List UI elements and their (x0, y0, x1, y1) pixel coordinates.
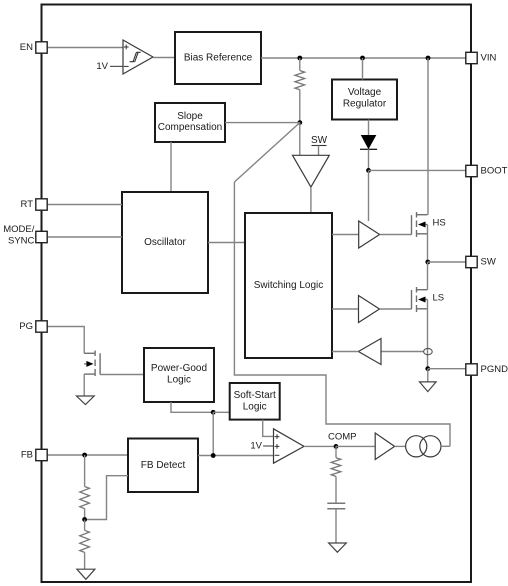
wire FB pin to FB Detect (48, 454, 129, 456)
node COMP junction (334, 444, 339, 449)
wire HS driver to HS gate (380, 234, 412, 236)
wire SW node to SW pin (428, 261, 466, 263)
svg-text:Slope: Slope (177, 111, 203, 122)
op-amp LS gate driver (359, 296, 380, 323)
pin PG (19, 321, 47, 332)
wire PG MOSFET gate to Power-Good Logic (100, 374, 144, 376)
pin EN (20, 42, 47, 53)
svg-text:PGND: PGND (481, 364, 508, 375)
wire PG MOSFET source to ground (83, 374, 85, 396)
svg-text:Logic: Logic (243, 402, 267, 413)
wire U1 output to Bias Reference (153, 57, 175, 59)
node SW junction (425, 260, 430, 265)
wire Soft-Start Logic to error amp + input (263, 420, 274, 437)
diode bootstrap (360, 136, 377, 150)
value label 1V (error amp reference) (250, 441, 262, 452)
node FB divider mid junction (82, 517, 87, 522)
wire Switching Logic to LS driver (332, 308, 359, 310)
wire BOOT node down to HS driver supply (368, 170, 370, 221)
wire VIN rail to Voltage Regulator (362, 58, 364, 80)
wire feedback loop: down, right, down, right, down to current source (234, 182, 450, 446)
svg-text:Bias Reference: Bias Reference (184, 53, 253, 64)
pin MODE/SYNC (3, 224, 47, 247)
svg-text:Power-Good: Power-Good (151, 363, 207, 374)
svg-text:VIN: VIN (481, 53, 497, 64)
wire SW node to LS drain (427, 262, 429, 290)
svg-text:SW: SW (311, 135, 328, 146)
wire zero-cross sense to buffer (381, 351, 424, 353)
op-amp error amplifier (274, 429, 305, 463)
wire PGND node to PGND pin (428, 368, 466, 370)
svg-text:RT: RT (21, 199, 34, 210)
block Soft-Start Logic (230, 383, 280, 420)
wire Voltage Regulator to diode (368, 120, 370, 136)
wire RT pin to Oscillator (48, 204, 123, 206)
wire BOOT node to BOOT pin (369, 169, 467, 171)
node FB line junction (211, 453, 216, 458)
wire current source output loop (441, 445, 450, 447)
svg-text:COMP: COMP (328, 432, 357, 443)
wire Slope Compensation output to summing node (225, 122, 300, 124)
block Slope Compensation (155, 103, 225, 142)
wire sense comparator output to Switching Logic (310, 187, 312, 213)
block Oscillator (122, 192, 208, 293)
svg-text:SYNC: SYNC (8, 235, 35, 246)
label COMP (328, 432, 357, 443)
wire junction down to FB line (212, 412, 214, 455)
current source (two circles) (406, 436, 441, 457)
node FB junction (82, 453, 87, 458)
resistor FB divider lower (80, 520, 90, 570)
node PG/SS junction (211, 410, 216, 415)
wire junction to Soft-Start Logic (213, 411, 230, 413)
svg-text:Logic: Logic (167, 375, 191, 386)
wire Oscillator to Switching Logic (208, 242, 245, 244)
block Voltage Regulator (332, 80, 397, 120)
wire summing node to sense comparator (299, 123, 301, 156)
resistor current-sense (below VIN rail) (295, 58, 305, 123)
op-amp zero-cross buffer (left pointing) (358, 339, 381, 365)
svg-text:SW: SW (481, 257, 496, 268)
wire 1V to U1 - input (110, 65, 123, 67)
op-amp COMP buffer (375, 433, 394, 460)
svg-text:Soft-Start: Soft-Start (234, 390, 276, 401)
op-amp U1 EN comparator with hysteresis (123, 40, 153, 74)
op-amp HS gate driver (359, 221, 380, 248)
label HS (433, 218, 446, 229)
transistor HS MOSFET (412, 212, 428, 237)
pin FB (21, 449, 47, 460)
node current-sense summing junction (297, 120, 302, 125)
block Bias Reference (175, 32, 261, 84)
wire HS source to SW node (427, 225, 429, 263)
wire FB Detect lower tap (85, 476, 128, 520)
svg-text:Oscillator: Oscillator (144, 237, 186, 248)
svg-text:Switching Logic: Switching Logic (254, 280, 323, 291)
pin VIN (466, 52, 497, 63)
node BOOT junction (366, 168, 371, 173)
svg-text:BOOT: BOOT (481, 166, 508, 177)
svg-text:LS: LS (433, 293, 445, 304)
wire zero-cross buffer to Switching Logic (332, 351, 358, 353)
svg-text:FB: FB (21, 450, 33, 461)
pin PGND (466, 364, 508, 375)
wire Slope Compensation to Oscillator (170, 142, 172, 192)
pin BOOT (466, 165, 508, 176)
svg-text:Voltage: Voltage (348, 87, 382, 98)
node VIN rail junction 1 (297, 56, 302, 61)
wire PGND node to ground (427, 369, 429, 382)
wire Power-Good Logic output to junction (171, 402, 213, 412)
label SW (sense comparator input) (311, 135, 328, 155)
svg-text:PG: PG (19, 321, 33, 332)
wire error amp output to COMP node (304, 445, 336, 447)
resistor FB divider upper (80, 455, 90, 520)
ground COMP network ground arrow (329, 543, 347, 552)
block Power-Good Logic (144, 348, 214, 402)
wire MODE/SYNC pin to Oscillator (48, 236, 123, 238)
wire VIN rail to HS drain (427, 58, 429, 215)
svg-text:MODE/: MODE/ (3, 224, 35, 235)
capacitor COMP compensation (327, 503, 345, 543)
wire COMP buffer to current source (395, 445, 406, 447)
ground power ground arrow (420, 382, 437, 392)
wire LS driver to LS gate (380, 308, 412, 310)
block FB Detect (128, 439, 198, 493)
svg-text:HS: HS (433, 218, 446, 229)
ground PG MOSFET ground arrow (77, 396, 95, 405)
transistor PG pulldown MOSFET (mirrored) (84, 351, 100, 377)
wire COMP node to buffer (336, 445, 375, 447)
resistor COMP compensation (331, 446, 341, 503)
value label 1V (EN comparator reference) (96, 61, 108, 72)
wire LS source to PGND node (427, 300, 429, 369)
label LS (433, 293, 445, 304)
wire diode to BOOT node (368, 149, 370, 170)
svg-text:Regulator: Regulator (343, 99, 387, 110)
node zero-cross sense bubble (424, 348, 433, 354)
pin SW (466, 256, 496, 267)
wire Switching Logic to HS driver (332, 234, 359, 236)
wire summing node diagonal to feedback loop (234, 123, 299, 182)
wire PG pin to pulldown MOSFET (48, 327, 85, 354)
node VIN rail junction 2 (360, 56, 365, 61)
svg-text:EN: EN (20, 42, 33, 53)
node PGND junction (425, 366, 430, 371)
wire VIN rail: Bias Reference to VIN pin (261, 57, 466, 59)
svg-text:1V: 1V (250, 441, 262, 452)
svg-text:FB Detect: FB Detect (141, 460, 186, 471)
svg-text:1V: 1V (96, 61, 108, 72)
node VIN rail junction 3 (426, 56, 431, 61)
transistor LS MOSFET (412, 287, 428, 312)
ground FB divider ground arrow (77, 569, 95, 579)
pin RT (21, 199, 48, 210)
wire FB Detect output to error amp - input (198, 455, 274, 457)
svg-text:Compensation: Compensation (158, 122, 222, 133)
wire EN pin to comparator U1 + input (48, 47, 124, 49)
wire 1V to error amp + input (263, 445, 273, 447)
op-amp current sense comparator (down) (293, 155, 330, 187)
block Switching Logic (245, 213, 332, 358)
